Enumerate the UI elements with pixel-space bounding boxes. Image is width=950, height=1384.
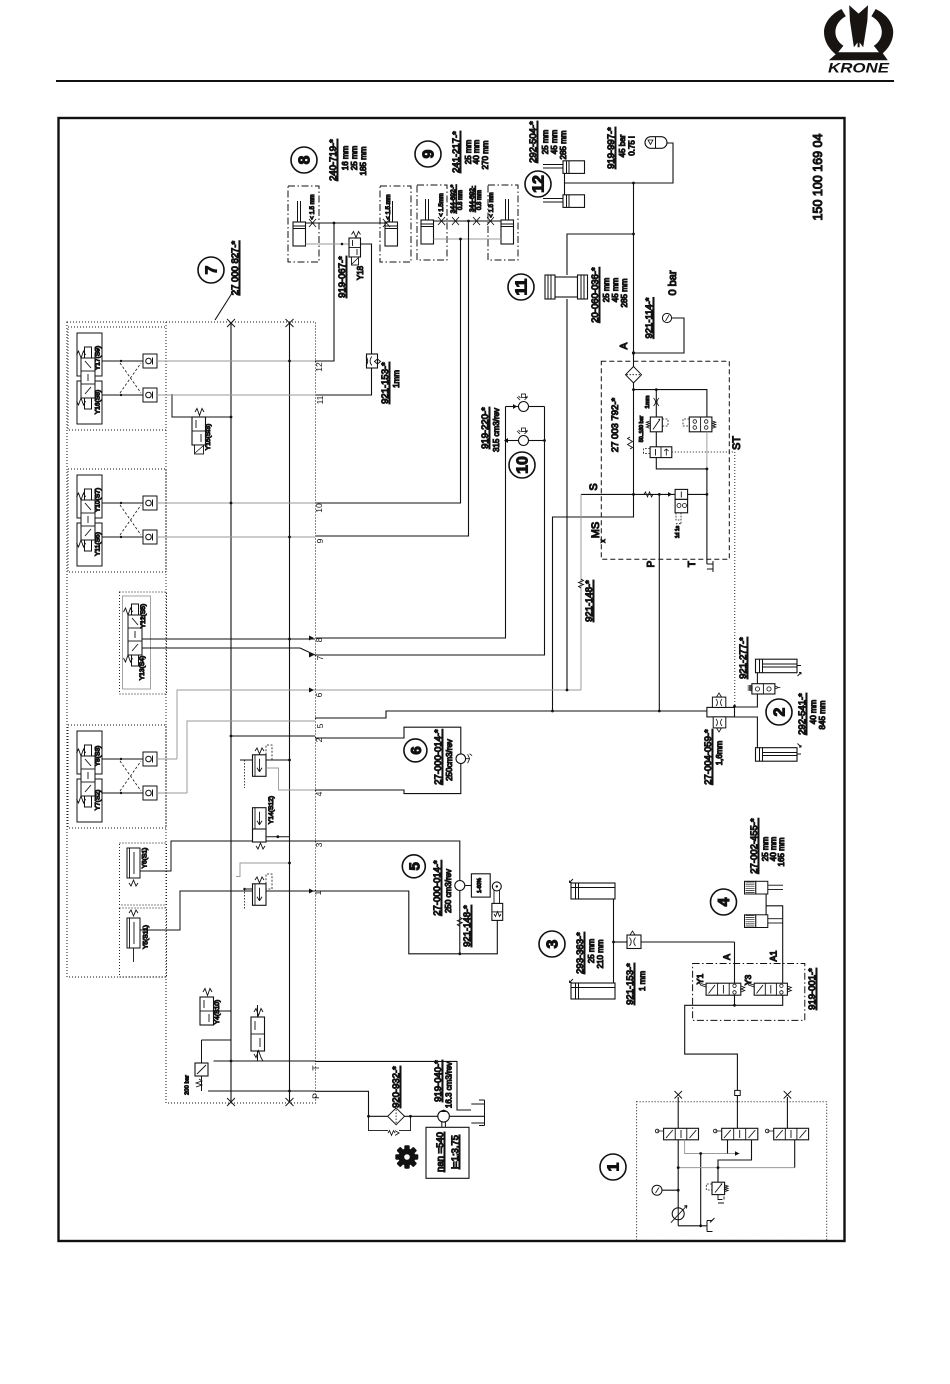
outer dotted boundary (67, 322, 316, 1103)
svg-text:919-001-*: 919-001-* (807, 968, 818, 1010)
feed stubs with X (677, 1097, 679, 1128)
svg-text:1d 1s: 1d 1s (675, 525, 681, 538)
svg-text:Y5(S11): Y5(S11) (143, 925, 150, 949)
svg-text:Y3: Y3 (743, 975, 753, 986)
svg-text:< 1.5 mm: < 1.5 mm (386, 194, 392, 219)
hand valve 3 (765, 1128, 808, 1140)
svg-text:Y7(S2): Y7(S2) (95, 790, 102, 811)
svg-text:A: A (619, 342, 630, 349)
svg-text:285 mm: 285 mm (620, 278, 629, 307)
svg-text:250cm3/rev: 250cm3/rev (445, 739, 454, 781)
svg-text:1-60%: 1-60% (477, 878, 483, 893)
svg-text:921-153-*: 921-153-* (625, 963, 636, 1005)
item 11 double cylinder (508, 274, 534, 300)
compensator valves column (240, 745, 291, 910)
svg-text:9: 9 (315, 538, 325, 543)
svg-text:Y6(S1): Y6(S1) (142, 848, 149, 869)
svg-text:2: 2 (772, 707, 789, 716)
svg-text:921-148-*: 921-148-* (584, 580, 595, 622)
svg-text:Y14(S12): Y14(S12) (268, 796, 275, 824)
ST dotted line (672, 452, 735, 706)
svg-text:3: 3 (314, 842, 324, 847)
svg-text:165 mm: 165 mm (777, 837, 786, 866)
svg-text:10: 10 (314, 503, 324, 513)
interior wiring (677, 1140, 679, 1226)
node A (632, 351, 635, 354)
top branch (634, 390, 707, 417)
svg-text:921-277-*: 921-277-* (738, 637, 749, 679)
svg-text:25 mm: 25 mm (350, 145, 359, 170)
item 12 : two small cylinders (525, 171, 551, 197)
section S6: Y5(S11) (120, 891, 316, 977)
svg-text:293-363-*: 293-363-* (575, 932, 586, 974)
svg-text:25 mm: 25 mm (541, 129, 550, 154)
svg-text:11: 11 (514, 278, 531, 295)
S gray drop to port6 / item11 drop (580, 494, 582, 690)
svg-text:S: S (588, 483, 600, 490)
svg-text:40 mm: 40 mm (472, 139, 481, 164)
svg-text:921-148-*: 921-148-* (462, 905, 473, 947)
pilot check valve 921-277 (752, 684, 775, 694)
svg-text:20-060-036-*: 20-060-036-* (590, 267, 601, 323)
cylinder item 9 left (421, 199, 434, 244)
svg-text:285 mm: 285 mm (559, 130, 568, 159)
section S3: Y12(S5)/Y13(S4) narrow (120, 592, 316, 694)
svg-text:210 mm: 210 mm (596, 939, 605, 968)
port 12 riser (315, 223, 334, 361)
port 6 gray line (315, 689, 581, 691)
svg-text:6: 6 (408, 746, 425, 754)
svg-text:ST: ST (731, 436, 743, 450)
svg-text:6: 6 (314, 692, 324, 697)
svg-text:8: 8 (297, 155, 314, 164)
svg-text:Y8(S3): Y8(S3) (95, 746, 102, 767)
connecting line between item8 cylinders with orifices (306, 222, 386, 224)
svg-text:T: T (311, 1065, 321, 1071)
svg-text:1mm: 1mm (645, 395, 651, 408)
svg-text:Y4(S10): Y4(S10) (214, 1000, 221, 1025)
Y18 valve (306, 243, 350, 245)
port number labels (311, 362, 325, 1099)
vertical rails (230, 323, 232, 1102)
svg-text:Y13(S4): Y13(S4) (139, 656, 146, 681)
svg-text:Y18: Y18 (356, 265, 365, 280)
svg-text:344-692-*: 344-692-* (450, 184, 457, 213)
svg-text:P: P (646, 560, 657, 567)
svg-text:25 mm: 25 mm (587, 938, 596, 963)
double cylinder item 11 (20-060-036) (545, 275, 588, 299)
svg-text:292-504-*: 292-504-* (528, 121, 539, 163)
svg-text:i=1:3.75: i=1:3.75 (450, 1135, 461, 1169)
svg-text:< 1.5 mm: < 1.5 mm (489, 192, 495, 217)
Y18 to orifice 921-153 riser and port 11 (361, 244, 372, 354)
svg-text:Y1: Y1 (695, 974, 705, 985)
svg-text:Y10(S7): Y10(S7) (95, 488, 102, 513)
svg-text:292-541-*: 292-541-* (797, 693, 808, 735)
port 8 and port 7 risers to motors (315, 407, 506, 639)
main line down to A (633, 183, 635, 353)
solenoid valve Y3 (743, 975, 791, 996)
svg-text:200 bar: 200 bar (185, 1075, 191, 1095)
internal gray bus lines (157, 361, 315, 1091)
svg-text:4: 4 (314, 791, 324, 796)
section S4: Y8(S3)/Y7(S2) (68, 725, 166, 828)
svg-text:919-040-*: 919-040-* (433, 1060, 444, 1102)
svg-text:270 mm: 270 mm (481, 140, 490, 169)
svg-text:0.8 mm: 0.8 mm (458, 190, 464, 210)
svg-text:315 cm3/rev: 315 cm3/rev (492, 408, 501, 452)
cylinder item 4 lower (27-002-455) (745, 915, 784, 928)
cylinder item 9 right (501, 199, 514, 244)
svg-text:< 1.5 mm: < 1.5 mm (310, 194, 316, 219)
below middle valve (656, 458, 707, 469)
svg-text:919-997-*: 919-997-* (606, 127, 617, 169)
svg-text:1: 1 (606, 1162, 623, 1171)
svg-text:27-000-014-*: 27-000-014-* (433, 729, 444, 785)
svg-text:185 mm: 185 mm (359, 146, 368, 175)
svg-text:7: 7 (204, 265, 221, 274)
svg-text:A: A (722, 954, 732, 960)
svg-text:45 mm: 45 mm (611, 277, 620, 302)
P line to filter/pump (315, 1091, 388, 1116)
middle 2/2 valve (650, 447, 672, 458)
relief valve 50-180 bar (650, 417, 662, 432)
cylinder item 8 right (385, 201, 398, 246)
svg-text:12: 12 (314, 362, 324, 372)
svg-text:50..180 bar: 50..180 bar (639, 416, 645, 443)
item 9 : two cylinders (417, 185, 447, 260)
svg-text:0.75 l: 0.75 l (628, 136, 637, 156)
cylinder item 12 upper (543, 161, 585, 174)
svg-text:KRONE: KRONE (828, 60, 890, 76)
svg-text:241-217-*: 241-217-* (451, 131, 462, 173)
svg-text:250 cm3/rev: 250 cm3/rev (444, 869, 453, 913)
P and T down (658, 494, 660, 711)
hand valve 1 (655, 1128, 698, 1140)
solenoid valve Y1 (695, 974, 745, 996)
section S1: Y17(S9)/Y16(S8) (68, 327, 166, 430)
svg-text:1,6mm: 1,6mm (715, 740, 724, 765)
MS branch (553, 494, 634, 711)
svg-text:nan =540: nan =540 (435, 1132, 446, 1172)
filter diamond (626, 367, 642, 383)
svg-text:T: T (687, 561, 698, 567)
svg-text:MS: MS (590, 522, 602, 539)
bottom internal valves (185, 989, 265, 1095)
hydraulic motors item 10 (919-220) (480, 394, 546, 478)
cylinder item 4 upper (27-002-455) (745, 881, 784, 894)
svg-text:< 1.5mm: < 1.5mm (439, 193, 445, 217)
svg-text:Y17(S9): Y17(S9) (95, 346, 102, 371)
svg-text:Y15(SI3): Y15(SI3) (205, 424, 212, 450)
svg-text:845 mm: 845 mm (818, 700, 827, 729)
item 8 : two cylinders (288, 186, 319, 262)
svg-text:150 100 169 04: 150 100 169 04 (811, 134, 825, 221)
cylinder item 2 upper (292-541) (756, 659, 802, 676)
svg-text:0.8 mm: 0.8 mm (477, 190, 483, 210)
svg-text:7: 7 (315, 655, 325, 660)
unloading valve right (689, 417, 712, 432)
tank (471, 1100, 484, 1126)
svg-text:10: 10 (515, 456, 532, 474)
bottom rail with tank (678, 1225, 707, 1227)
S line across (581, 493, 675, 495)
section S5: Y6(S1) (120, 841, 316, 905)
svg-text:5: 5 (406, 862, 423, 870)
svg-text:11: 11 (315, 395, 325, 404)
PTO gear icon (395, 1145, 418, 1168)
section S2: Y10(S7)/Y11(S5) (68, 469, 166, 572)
port 5 / P rail to item 2 (315, 711, 707, 718)
svg-text:27-004-059-*: 27-004-059-* (703, 729, 714, 785)
Y15(SI3) valve (172, 394, 231, 454)
svg-text:A1: A1 (769, 950, 779, 961)
svg-text:16.3 cm3/rev: 16.3 cm3/rev (445, 1062, 454, 1108)
cylinder item 3 lower (293-363) (570, 979, 616, 999)
svg-text:Y11(S5): Y11(S5) (95, 532, 102, 556)
svg-text:9: 9 (421, 149, 438, 158)
svg-text:1mm: 1mm (392, 370, 401, 388)
svg-text:27 000 827-*: 27 000 827-* (230, 241, 241, 296)
KRONE logo (824, 5, 893, 75)
svg-text:27-002-455-*: 27-002-455-* (749, 818, 760, 874)
cylinder item 12 lower (543, 195, 585, 208)
A line in (734, 942, 736, 983)
bottom collector (735, 995, 783, 1005)
svg-text:16 mm: 16 mm (341, 145, 350, 170)
svg-text:45 bar: 45 bar (618, 134, 627, 157)
cylinder item 8 left (293, 201, 306, 246)
item 7 callout (198, 257, 224, 283)
svg-text:921-153-*: 921-153-* (380, 362, 391, 404)
svg-text:12: 12 (531, 175, 548, 193)
accumulator 919-997 (645, 137, 667, 149)
connections (735, 694, 758, 707)
svg-text:5: 5 (315, 723, 325, 728)
svg-text:240-719-*: 240-719-* (328, 139, 339, 181)
cylinder item 2 lower (292-541) (756, 744, 802, 762)
all schematic content in portrait coords; rotated text inline (67, 121, 827, 1241)
svg-text:344-692-: 344-692- (469, 186, 476, 212)
brake (471, 874, 490, 897)
junction dots on rails (230, 360, 291, 1093)
svg-text:920-932-*: 920-932-* (391, 1066, 402, 1108)
relief valve (712, 1182, 725, 1194)
svg-text:921-114-*: 921-114-* (644, 297, 655, 338)
svg-text:27-000-014-*: 27-000-014-* (432, 860, 443, 916)
svg-text:40 mm: 40 mm (809, 699, 818, 724)
svg-text:27 003 792-*: 27 003 792-* (610, 398, 621, 453)
svg-text:3: 3 (545, 939, 562, 948)
gauge (652, 1185, 662, 1195)
drawing frame (59, 118, 845, 1241)
risers to ports 9 and 10 (315, 221, 469, 536)
svg-text:Y16(S8): Y16(S8) (95, 390, 102, 415)
svg-text:4: 4 (716, 897, 733, 906)
svg-text:919-067-*: 919-067-* (337, 256, 348, 298)
921-114 gauge and 0 bar (662, 313, 671, 322)
hand valve 2 (713, 1128, 757, 1140)
port entry arrowheads (309, 636, 314, 894)
svg-text:45 mm: 45 mm (550, 129, 559, 154)
header rule (56, 80, 894, 82)
T line to tank (315, 1061, 471, 1110)
svg-text:919-220-*: 919-220-* (480, 407, 491, 449)
svg-text:Y12(S5): Y12(S5) (140, 604, 147, 629)
variable throttle (672, 1208, 684, 1220)
gearbox (426, 1127, 469, 1178)
restrictor block 27-004-059 (707, 707, 735, 717)
svg-text:P: P (311, 1093, 321, 1099)
svg-text:1 mm: 1 mm (638, 971, 647, 991)
svg-text:x: x (600, 539, 607, 543)
svg-text:0 bar: 0 bar (667, 270, 679, 295)
svg-text:25 mm: 25 mm (602, 277, 611, 302)
cylinder item 3 upper (293-363) (570, 879, 616, 899)
seq valve on S line (675, 489, 688, 499)
